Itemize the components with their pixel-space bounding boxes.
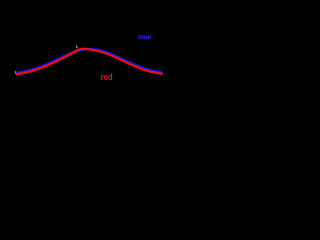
svg-text:blue: blue <box>138 34 151 41</box>
blue curve (series "blue") <box>17 49 163 73</box>
red curve (series "red") <box>17 49 162 74</box>
dash after "blue" <box>151 35 153 38</box>
svg-text:red: red <box>101 72 113 82</box>
gray cursor mark near apex <box>76 45 77 48</box>
olive pixel at apex-mark foot <box>77 47 78 48</box>
gray tick at curve start <box>15 71 16 74</box>
